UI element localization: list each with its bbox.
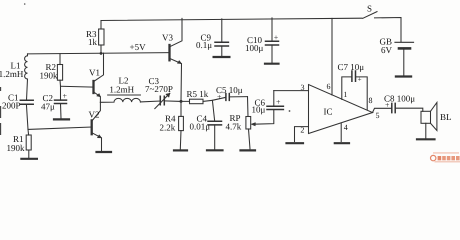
pin 3 wire: [274, 90, 309, 92]
label L1: [0, 4, 452, 153]
svg-text:1.2mH: 1.2mH: [109, 85, 134, 95]
svg-text:+: +: [274, 33, 279, 42]
potentiometer RP: [247, 97, 250, 117]
pin 6 wire: [331, 18, 333, 95]
resistor R5: [190, 99, 204, 104]
ground below RP: [241, 149, 256, 151]
resistor R2: [59, 54, 61, 65]
watermark logo: [431, 152, 460, 162]
svg-text:C7 10μ: C7 10μ: [338, 62, 365, 72]
ground below R4: [174, 149, 187, 151]
wiper arrowhead into RP: [251, 123, 255, 126]
svg-text:+: +: [358, 76, 362, 84]
resistor R3: [100, 21, 102, 30]
svg-text:0.01μ: 0.01μ: [190, 122, 211, 132]
svg-text:190k: 190k: [40, 70, 59, 80]
wire base V2: [28, 127, 92, 129]
capacitor C4: [212, 100, 214, 121]
svg-text:+5V: +5V: [130, 42, 147, 52]
battery GB: [395, 41, 414, 43]
switch S: [363, 12, 401, 42]
svg-text:47μ: 47μ: [41, 101, 55, 111]
pin 5 output wire: [373, 108, 392, 112]
op-amp IC triangle: [309, 85, 373, 134]
svg-text:4: 4: [344, 123, 348, 132]
ground below C4: [207, 149, 223, 151]
svg-text:1: 1: [343, 90, 347, 99]
svg-text:+: +: [63, 92, 68, 101]
transistor V3: [168, 45, 170, 60]
node +5V junction: [100, 52, 103, 55]
svg-text:S: S: [367, 4, 372, 14]
ground below C9: [214, 56, 230, 58]
wire top supply rail: [101, 18, 362, 20]
svg-text:7~270P: 7~270P: [145, 84, 173, 94]
ground below C10: [265, 63, 279, 65]
svg-text:100μ: 100μ: [245, 43, 264, 53]
svg-text:5: 5: [376, 111, 380, 120]
speaker BL: [421, 111, 431, 123]
inductor L2: [100, 98, 160, 102]
svg-text:2.2k: 2.2k: [160, 122, 176, 132]
svg-text:BL: BL: [440, 112, 452, 122]
ground below V2: [97, 151, 112, 153]
svg-text:+: +: [385, 101, 390, 110]
capacitor C3 variable: [160, 96, 164, 105]
pin 4 wire and ground: [340, 124, 342, 142]
label underline L2: [108, 94, 141, 96]
svg-text:1.2mH: 1.2mH: [0, 69, 24, 79]
capacitor C8: [392, 103, 395, 112]
capacitor C9: [221, 19, 223, 42]
pin 2 wire and ground: [295, 127, 309, 142]
resistor R1: [27, 129, 30, 135]
svg-text:6V: 6V: [381, 45, 393, 55]
capacitor C1: [20, 100, 33, 104]
svg-text:4.7k: 4.7k: [226, 122, 242, 132]
svg-text:3: 3: [301, 83, 305, 92]
capacitor C5: [226, 94, 229, 101]
inductor L1: [25, 54, 28, 100]
svg-text:+: +: [217, 93, 222, 102]
svg-text:6: 6: [327, 82, 331, 91]
capacitor C7 with leads: [342, 77, 367, 110]
svg-text:V3: V3: [162, 33, 173, 43]
resistor R4: [180, 101, 182, 116]
scan speck: [24, 3, 26, 5]
svg-text:10μ: 10μ: [252, 105, 266, 115]
svg-text:R5 1k: R5 1k: [187, 89, 209, 99]
svg-text:190k: 190k: [7, 143, 26, 153]
node junction C3/R5/R4/V3: [180, 100, 183, 103]
svg-text:8: 8: [369, 96, 373, 105]
svg-text:V1: V1: [89, 68, 100, 78]
svg-text:+: +: [276, 98, 281, 107]
wire base V1: [61, 85, 94, 88]
svg-text:0.1μ: 0.1μ: [196, 40, 212, 50]
transistor V1: [92, 81, 94, 93]
svg-text:IC: IC: [324, 107, 333, 117]
svg-text:1k: 1k: [88, 37, 98, 47]
capacitor C10: [271, 18, 273, 41]
transistor V2: [91, 120, 93, 134]
wire +5V rail: [28, 53, 170, 54]
capacitor C2: [60, 86, 62, 100]
capacitor C6: [273, 91, 275, 107]
scan edge artifact: [0, 87, 2, 135]
ground below C2: [54, 118, 69, 120]
ground below R1: [21, 158, 37, 160]
svg-text:200P: 200P: [2, 100, 21, 110]
svg-text:2: 2: [300, 125, 304, 134]
svg-text:V2: V2: [89, 110, 100, 120]
scan speck: [289, 110, 291, 112]
ground below GB: [396, 75, 411, 77]
ground below BL: [417, 138, 435, 140]
